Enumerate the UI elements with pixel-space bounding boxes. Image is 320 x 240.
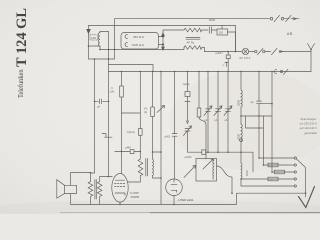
svg-text:456 kHz: 456 kHz	[133, 35, 145, 39]
voltage tap line 179 + fuse	[241, 177, 296, 181]
voltage tap line 186	[241, 185, 296, 187]
switch S1 mains	[270, 15, 296, 21]
voltage tap line 172 + fuse	[272, 170, 296, 174]
bandfilter box BF1	[121, 33, 163, 50]
output transformer T1 primary zigzag	[88, 173, 93, 205]
voltage tap line 158	[259, 157, 296, 159]
IF transformer winding W2	[184, 46, 202, 50]
wire pot to rail	[217, 166, 233, 193]
tube V1 output AL4	[112, 174, 128, 205]
svg-text:2000: 2000	[236, 134, 240, 140]
resistor L(H12)	[127, 72, 142, 152]
vertical node wire x108.5	[108, 32, 110, 65]
svg-text:X: X	[111, 86, 113, 90]
voltage tap line 165 + fuse	[264, 163, 297, 167]
wire W2 to lamp branch	[202, 48, 205, 52]
title T 124 GL	[14, 8, 30, 67]
capacitor C-grid µ4	[95, 99, 109, 108]
connector circle on choke line	[240, 139, 243, 142]
label AFFg	[187, 41, 195, 45]
wire link y152 right	[188, 152, 254, 172]
svg-text:6V 0,3 A: 6V 0,3 A	[240, 56, 251, 60]
label 150 (dashed box)	[90, 35, 98, 40]
connector box on link	[185, 150, 206, 159]
svg-text:(14): (14)	[110, 90, 115, 94]
wire coil bottom	[89, 46, 101, 50]
svg-text:1µ(11): 1µ(11)	[183, 83, 190, 86]
resistor R1	[110, 72, 124, 152]
antenna coil L1	[98, 32, 100, 47]
T1 secondary zigzag	[97, 177, 102, 205]
svg-text:µ402: µ402	[165, 136, 171, 139]
resistor R3	[197, 72, 206, 159]
T1 core	[95, 180, 96, 200]
wire gang to IF	[163, 30, 184, 34]
svg-text:µ4047: µ4047	[216, 51, 224, 55]
wire grid drop to tube	[121, 152, 123, 174]
vertical wire x235.5	[235, 32, 237, 52]
label tube V2	[177, 198, 195, 202]
tuning gang arrow	[162, 33, 165, 50]
svg-text:auf 110-240 V: auf 110-240 V	[300, 126, 317, 130]
svg-text:5000: 5000	[209, 18, 216, 22]
trimmer cap T2	[214, 72, 222, 153]
wire rail y64.5	[109, 65, 154, 72]
svg-text:(4): (4)	[144, 111, 147, 114]
scan bottom edge	[60, 212, 320, 214]
wire tube V1 anode link	[128, 176, 141, 183]
svg-text:AF Fg: AF Fg	[187, 41, 195, 45]
trimmer cap T3	[224, 72, 232, 153]
label tube V1	[131, 191, 140, 199]
mains plug arrow	[299, 187, 315, 208]
svg-text:150: 150	[91, 36, 96, 40]
bottom rail A	[161, 193, 306, 204]
wire rail y49.5	[100, 48, 184, 50]
capacitor 1µ box on x187.5	[183, 72, 191, 122]
svg-text:A B: A B	[287, 32, 293, 36]
wire R1 branch y113	[122, 112, 141, 114]
capacitor 4µ on x259	[251, 72, 262, 159]
svg-text:4µ: 4µ	[251, 100, 254, 104]
antenna arrow	[87, 29, 91, 33]
title Telefunken	[17, 69, 25, 98]
tube V2 rectifier	[166, 179, 183, 204]
resistor 150	[217, 25, 236, 35]
wire top rail 2	[89, 25, 236, 59]
svg-text:. 1/TER AZ11: . 1/TER AZ11	[177, 198, 195, 202]
bottom rail B	[91, 203, 162, 205]
svg-text:L(H12): L(H12)	[127, 130, 135, 134]
trimmer cap T0	[184, 121, 192, 152]
choke L2 2000	[236, 72, 242, 125]
wire link y152	[153, 151, 162, 153]
wire selector feed box	[246, 116, 264, 165]
svg-text:150: 150	[219, 31, 224, 35]
svg-text:µ466: µ466	[125, 145, 131, 149]
wire rail y59	[89, 58, 115, 60]
svg-text:Spannungen:: Spannungen:	[300, 117, 317, 121]
wire T1 to tube	[100, 176, 113, 178]
main bus	[109, 71, 312, 73]
svg-text:1935 kHz: 1935 kHz	[132, 43, 145, 47]
resistor R4 on x228	[216, 51, 231, 71]
label 2000	[245, 170, 249, 176]
rail x161 with pot arrow	[157, 72, 165, 205]
svg-text:µ4003: µ4003	[185, 156, 193, 159]
resistor R2	[144, 72, 155, 160]
wire speaker loop	[71, 173, 91, 205]
wire y116 link	[241, 115, 272, 117]
potentiometer P1 (mains trafo primary)	[184, 159, 217, 182]
svg-text:2000: 2000	[245, 170, 249, 176]
wire y103.7 to x272	[259, 103, 272, 105]
selector wiper	[297, 159, 306, 197]
svg-text:2000: 2000	[236, 100, 240, 106]
capacitor 5000	[202, 18, 217, 33]
label A B	[287, 32, 293, 36]
lamp E1 6V 0,3A	[240, 48, 251, 60]
wire lamp rail	[205, 51, 312, 53]
interstage transformer T2 zigzag	[138, 159, 143, 176]
svg-text:SVRW: SVRW	[131, 195, 140, 199]
svg-text:mit 220-230 V: mit 220-230 V	[300, 122, 318, 126]
svg-text:Telefunken: Telefunken	[17, 69, 25, 98]
svg-text:T 124 GL: T 124 GL	[14, 8, 30, 67]
wire coil top loop	[100, 31, 109, 33]
svg-text:geschaltet: geschaltet	[304, 131, 317, 135]
vertical x272	[271, 72, 273, 173]
left rail x94.5	[91, 59, 95, 173]
IF transformer winding W1	[184, 28, 202, 32]
coupling line with series box	[115, 145, 141, 153]
jack J1 on bus	[275, 69, 288, 74]
wire x174.5 with series cap	[165, 72, 178, 179]
switch S2	[255, 48, 283, 54]
antenna Y symbol	[308, 44, 315, 72]
T2 coil	[153, 159, 162, 178]
T2 core	[146, 159, 148, 177]
IF transformer core	[186, 38, 200, 40]
trimmer cap T1	[204, 72, 212, 153]
wire top rail 1	[115, 19, 300, 59]
winding L4	[240, 163, 243, 186]
choke L3 2000	[236, 124, 242, 163]
speaker LS	[57, 180, 77, 199]
wire to transformer2	[139, 152, 141, 160]
voltage note text	[300, 117, 318, 135]
grid cap on x108.5	[102, 134, 112, 138]
node wire x108.5 lower	[108, 65, 110, 177]
